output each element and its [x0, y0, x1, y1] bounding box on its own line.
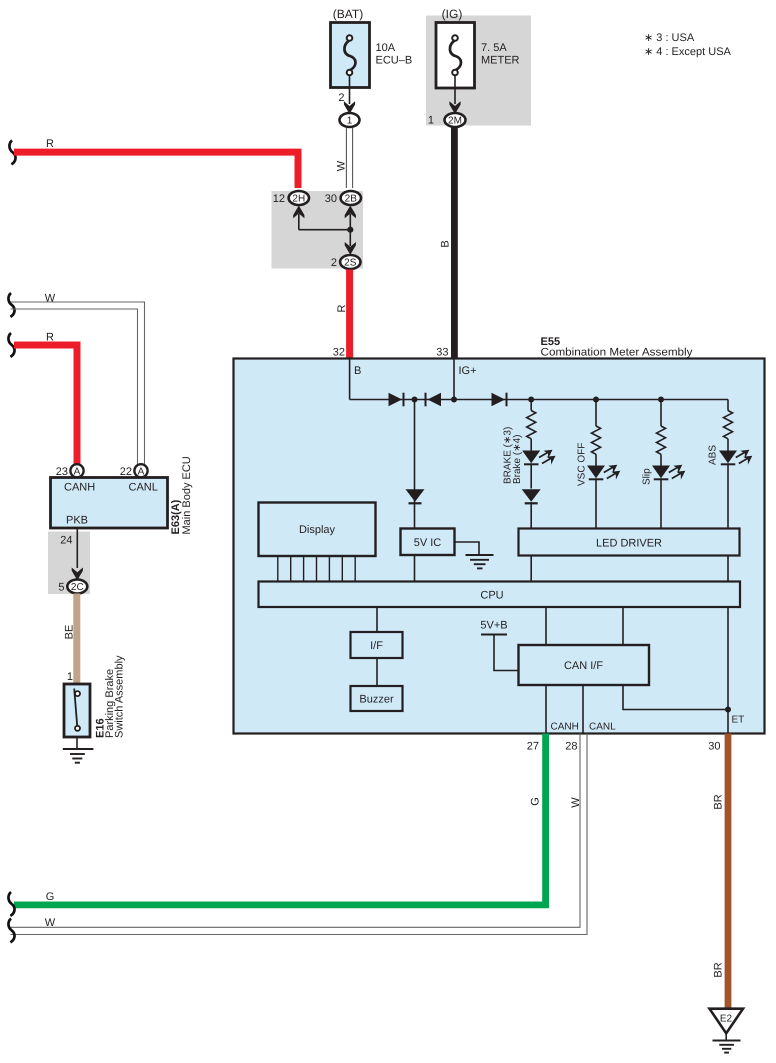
svg-text:2: 2 [331, 257, 337, 269]
resistor (ABS branch) [724, 400, 733, 451]
5V IC block [401, 529, 455, 582]
svg-text:(BAT): (BAT) [333, 7, 363, 21]
wire (BAT fuse pin 2 to connector 1) [338, 75, 355, 114]
node IG+ (pin 33 entry) [454, 359, 477, 400]
svg-text:R: R [46, 138, 54, 150]
connector 2C [58, 580, 87, 594]
svg-text:∗ 4 : Except USA: ∗ 4 : Except USA [644, 46, 732, 58]
svg-text:30: 30 [325, 193, 337, 205]
I/F block [351, 632, 403, 658]
wire G (pin 27 CANH to left break) [8, 734, 549, 916]
svg-text:E2: E2 [720, 1014, 733, 1025]
junction node [412, 397, 418, 403]
diode D4 (to 5V IC) [406, 400, 425, 529]
wires (LED driver to CPU) [530, 556, 532, 582]
svg-text:27: 27 [527, 741, 539, 753]
IG relay block panel (shaded) [426, 16, 531, 126]
wire ET internal [623, 607, 744, 734]
junction block 2C (shaded) [48, 532, 90, 595]
svg-text:B: B [354, 365, 361, 377]
fuse 7.5A METER (IG) [436, 7, 520, 88]
svg-text:2: 2 [338, 92, 344, 104]
svg-text:2S: 2S [344, 258, 357, 269]
svg-text:R: R [336, 304, 348, 312]
svg-text:7. 5A: 7. 5A [481, 42, 507, 54]
svg-text:5V IC: 5V IC [414, 537, 442, 549]
svg-text:5: 5 [58, 582, 64, 594]
svg-text:CANL: CANL [589, 722, 616, 733]
ground (E16) [63, 737, 94, 763]
svg-text:CAN I/F: CAN I/F [564, 660, 603, 672]
wires (CPU to CAN I/F) [545, 607, 547, 645]
svg-text:LED DRIVER: LED DRIVER [596, 538, 662, 550]
svg-text:BR: BR [713, 962, 725, 977]
wire CANL internal [583, 685, 616, 734]
resistor (VSC OFF branch) [592, 400, 601, 466]
svg-text:1: 1 [67, 671, 73, 683]
svg-text:ET: ET [732, 715, 745, 726]
junction block (shaded) [272, 191, 364, 269]
ground E2 [710, 1009, 744, 1053]
wire (2H to 2B/2S junction) [293, 206, 356, 247]
connector 2M [445, 113, 466, 127]
junction node VSC branch [593, 397, 599, 403]
svg-text:12: 12 [273, 193, 285, 205]
svg-text:ECU–B: ECU–B [376, 55, 413, 67]
svg-text:Combination Meter Assembly: Combination Meter Assembly [541, 347, 694, 359]
Buzzer block [351, 686, 403, 711]
svg-text:∗ 3 : USA: ∗ 3 : USA [644, 32, 695, 44]
svg-text:BR: BR [713, 794, 725, 809]
diode D5 (BRAKE branch lower) [522, 463, 541, 528]
svg-text:32: 32 [333, 347, 345, 359]
svg-text:A: A [138, 466, 145, 477]
diode D2 [426, 393, 442, 407]
5V+B supply [480, 620, 518, 671]
LED DRIVER block [519, 529, 740, 556]
svg-text:A: A [74, 466, 81, 477]
connector A (pin 22) [120, 464, 148, 478]
wire W (left break to E63 pin 22) [8, 293, 144, 465]
svg-text:G: G [530, 797, 542, 806]
wire R (left break to junction 2H) [9, 138, 301, 188]
svg-text:CANL: CANL [129, 482, 158, 494]
svg-text:I/F: I/F [370, 640, 383, 652]
wire B (connector 2M to E55 pin 33) [436, 127, 458, 359]
svg-text:2H: 2H [292, 194, 305, 205]
CAN I/F block [519, 645, 650, 685]
svg-text:Display: Display [299, 524, 336, 536]
wire W (pin 28 CANL to left break) [8, 734, 587, 943]
ground (5V IC) [455, 542, 494, 568]
wire W (connector 1 to junction 2B) [336, 128, 353, 189]
LED ABS [719, 450, 752, 529]
svg-text:Brake (∗4): Brake (∗4) [512, 434, 523, 484]
svg-text:Slip: Slip [642, 468, 653, 485]
wires (display bus comb) [278, 556, 355, 582]
LED VSC OFF [587, 465, 620, 529]
connector 2H [273, 191, 309, 205]
node B (pin 32 entry) [350, 359, 362, 400]
svg-text:5V+B: 5V+B [480, 620, 507, 632]
svg-text:CPU: CPU [480, 590, 503, 602]
svg-text:33: 33 [436, 347, 448, 359]
svg-text:PKB: PKB [66, 515, 88, 527]
svg-text:2B: 2B [345, 194, 358, 205]
resistor (Slip branch) [657, 400, 666, 466]
svg-text:1: 1 [347, 116, 353, 127]
svg-text:W: W [45, 917, 56, 929]
wire (PKB pin 24 to 2C) [60, 528, 83, 580]
connector 2S [331, 255, 361, 269]
svg-text:W: W [45, 293, 56, 305]
connector 1 [340, 113, 360, 127]
diode D3 [492, 393, 507, 407]
junction dot [347, 227, 353, 233]
svg-text:G: G [46, 891, 55, 903]
svg-text:W: W [336, 160, 348, 171]
svg-text:30: 30 [708, 741, 720, 753]
svg-text:10A: 10A [376, 42, 396, 54]
CPU block [259, 582, 741, 608]
svg-text:VSC OFF: VSC OFF [577, 443, 588, 486]
svg-text:METER: METER [481, 55, 520, 67]
wire (IG fuse to connector 2M) [428, 75, 461, 127]
junction node BRAKE branch [528, 397, 534, 403]
svg-text:B: B [440, 240, 452, 247]
E55 Combination Meter Assembly box [234, 336, 765, 734]
svg-text:1: 1 [428, 115, 434, 127]
wire R (2S to E55 pin 32) [333, 270, 353, 360]
E16 Parking Brake Switch Assembly [64, 655, 126, 738]
svg-text:2M: 2M [448, 116, 462, 127]
wire BR (pin 30 ET to ground E2) [713, 734, 732, 1010]
Display block [259, 503, 376, 557]
svg-text:ABS: ABS [708, 445, 719, 465]
wire (CPU to I/F) [376, 607, 378, 632]
connector A (pin 23) [56, 464, 84, 478]
svg-text:BE: BE [64, 625, 76, 640]
svg-text:CANH: CANH [551, 722, 579, 733]
junction node IG+ [451, 397, 457, 403]
junction node Slip branch [658, 397, 664, 403]
fuse 10A ECU-B (BAT) [331, 7, 413, 88]
LED BRAKE [522, 450, 555, 465]
wire (power rail) [350, 399, 728, 401]
svg-text:CANH: CANH [64, 482, 95, 494]
wire BE (2C to E16 pin 1) [64, 594, 81, 685]
svg-text:(IG): (IG) [442, 7, 463, 21]
resistor (BRAKE branch) [527, 400, 536, 451]
svg-text:Buzzer: Buzzer [359, 694, 394, 706]
svg-text:Main Body ECU: Main Body ECU [181, 456, 193, 534]
wire R (left break to E63 pin 23) [8, 332, 80, 465]
connector 2B [325, 191, 361, 205]
wire CANH internal [546, 685, 579, 734]
LED Slip [652, 465, 685, 529]
wire (junction to 2S) [345, 242, 356, 255]
diode D1 [389, 393, 404, 407]
svg-text:IG+: IG+ [459, 365, 477, 377]
svg-text:2C: 2C [71, 582, 84, 593]
svg-text:W: W [570, 797, 582, 808]
svg-text:Switch Assembly: Switch Assembly [114, 655, 126, 738]
E63(A) Main Body ECU box [51, 456, 194, 534]
wire (I/F to Buzzer) [376, 658, 378, 686]
svg-text:24: 24 [60, 535, 72, 547]
svg-text:28: 28 [565, 741, 577, 753]
